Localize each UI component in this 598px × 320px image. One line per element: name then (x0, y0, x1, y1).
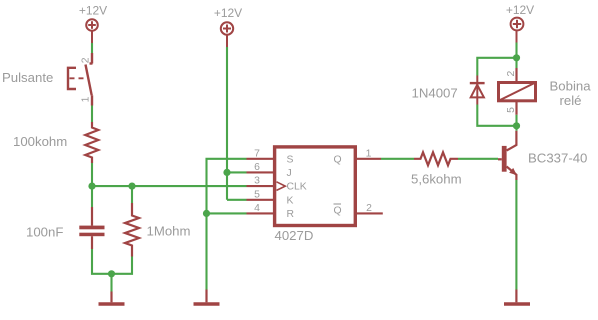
wire +12V to S1 pin2 (91, 43, 93, 53)
svg-text:CLK: CLK (287, 182, 307, 193)
supply +12V P3 symbol (511, 18, 524, 43)
svg-text:1: 1 (81, 96, 92, 102)
capacitor C1 100nF (79, 226, 104, 237)
diode D1 1N4007 (470, 76, 485, 105)
svg-text:J: J (287, 168, 292, 179)
wire +12V P2 down to J/K (226, 47, 228, 200)
svg-text:7: 7 (254, 148, 260, 159)
svg-text:5,6kohm: 5,6kohm (411, 172, 462, 187)
transistor Q1 emitter (507, 167, 517, 181)
svg-text:BC337-40: BC337-40 (528, 151, 587, 166)
relay coil K1 diagonal (499, 83, 536, 101)
pushbutton S1 lever (86, 65, 92, 96)
junction node E (513, 122, 520, 129)
svg-text:1Mohm: 1Mohm (147, 224, 191, 239)
svg-text:2: 2 (366, 203, 372, 214)
wire R pin horizontal (207, 212, 247, 214)
wire R1 to node A (junction) (91, 163, 93, 207)
svg-text:3: 3 (254, 176, 260, 187)
wire node A to CLK pin (92, 185, 247, 187)
svg-text:100nF: 100nF (26, 224, 63, 239)
IC U1 Q-bar overline (334, 203, 342, 205)
svg-text:R: R (287, 209, 295, 220)
ground GND1 (99, 292, 125, 305)
svg-text:2: 2 (81, 57, 92, 63)
relay coil K1 box (499, 83, 536, 101)
resistor R3 5,6kohm (414, 152, 458, 165)
svg-text:K: K (287, 195, 294, 206)
wire C1 bottom to node C (92, 249, 132, 274)
wire to J pin (227, 171, 247, 173)
svg-text:4027D: 4027D (275, 228, 314, 243)
svg-text:S: S (287, 154, 294, 165)
wire relay pin 5 to node E (515, 115, 517, 126)
junction S/R net (203, 210, 210, 217)
wire node D to relay pin 2 (515, 58, 517, 68)
resistor R2 1Mohm (125, 203, 139, 257)
wire R3 to Q1 base (458, 158, 498, 160)
wire to K pin (227, 199, 247, 201)
wire S net: S pin to R pin to ground (207, 159, 247, 290)
pushbutton S1 pin 1 (91, 95, 93, 105)
IC U1 right pins (357, 159, 383, 214)
relay coil K1 pins (515, 68, 517, 115)
wire node D to diode branch (477, 58, 516, 76)
capacitor C1 pins (91, 207, 93, 249)
resistor R1 100kohm (85, 122, 98, 163)
svg-text:+12V: +12V (79, 4, 107, 18)
svg-text:5: 5 (254, 189, 260, 200)
svg-text:+12V: +12V (214, 6, 242, 20)
wire +12V P3 to node D (515, 43, 517, 58)
junction node B (1Mohm top) (128, 183, 135, 190)
svg-text:100kohm: 100kohm (13, 134, 67, 149)
svg-text:6: 6 (254, 162, 260, 173)
junction J net (223, 169, 230, 176)
svg-text:relé: relé (560, 93, 582, 108)
pushbutton S1 actuator bracket (68, 68, 76, 89)
ground GND3 (504, 290, 530, 305)
wire node B to R2 (131, 186, 133, 203)
svg-text:Bobina: Bobina (550, 79, 592, 94)
svg-text:1N4007: 1N4007 (412, 86, 458, 101)
wire node C to ground (110, 274, 112, 292)
svg-text:2: 2 (506, 70, 517, 76)
svg-text:4: 4 (254, 203, 260, 214)
svg-text:Q: Q (334, 206, 342, 217)
svg-text:Q: Q (334, 154, 342, 165)
svg-text:+12V: +12V (506, 3, 534, 17)
ground GND2 (194, 290, 220, 305)
transistor Q1 base bar (502, 146, 507, 172)
wire Q pin to R3 (381, 158, 414, 160)
wire node E to Q1 collector (515, 126, 517, 131)
wire Q1 emitter to ground (515, 180, 517, 290)
transistor Q1 collector (507, 131, 517, 151)
junction node C (108, 270, 115, 277)
junction node A (88, 183, 95, 190)
svg-text:5: 5 (506, 107, 517, 113)
transistor Q1 base pin (498, 158, 502, 160)
wire diode bottom to node E (477, 105, 516, 126)
pushbutton S1 actuator dashed link (70, 77, 86, 79)
svg-text:1: 1 (366, 148, 372, 159)
transistor Q1 emitter arrow (509, 168, 517, 175)
wire S1 to R1 (91, 106, 93, 123)
supply +12V P1 symbol (86, 19, 98, 43)
svg-text:Pulsante: Pulsante (2, 70, 53, 85)
IC U1 left pins (247, 159, 274, 214)
supply +12V P2 symbol (221, 22, 233, 47)
IC U1 clock wedge (277, 182, 286, 191)
IC U1 4027D box (275, 147, 356, 226)
pushbutton S1 pin 2 (90, 53, 93, 64)
junction node D (513, 54, 520, 61)
